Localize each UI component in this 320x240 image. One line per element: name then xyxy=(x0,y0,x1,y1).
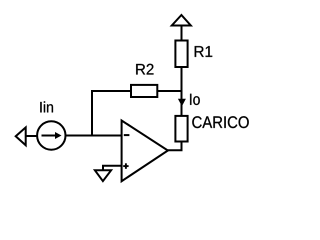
wire ground to non-inverting input xyxy=(103,166,122,171)
arrow Io xyxy=(178,99,186,107)
op-amp plus sign xyxy=(123,165,128,167)
wire power to R1 xyxy=(181,26,183,41)
wire R2 to output node xyxy=(157,90,181,92)
wire R1 to CARICO node xyxy=(181,67,183,116)
label R1 xyxy=(195,46,213,57)
wire feedback from inverting node to R2 xyxy=(92,91,131,136)
resistor R1 xyxy=(175,41,187,68)
label R2 xyxy=(136,64,153,75)
label Io xyxy=(190,94,200,105)
wire port to source xyxy=(26,135,38,137)
power port arrow xyxy=(172,15,191,26)
wire CARICO to output xyxy=(168,142,182,151)
input port terminal xyxy=(16,127,26,145)
op-amp minus sign xyxy=(124,134,130,136)
label Iin xyxy=(40,101,53,112)
resistor R2 xyxy=(131,85,157,97)
current source Iin circle xyxy=(37,121,65,149)
resistor CARICO xyxy=(175,116,187,142)
wire source to op-amp inverting input xyxy=(66,135,122,137)
op-amp U1 xyxy=(122,121,168,182)
label CARICO xyxy=(192,116,248,128)
ground xyxy=(95,170,111,181)
current source arrow xyxy=(42,135,57,137)
